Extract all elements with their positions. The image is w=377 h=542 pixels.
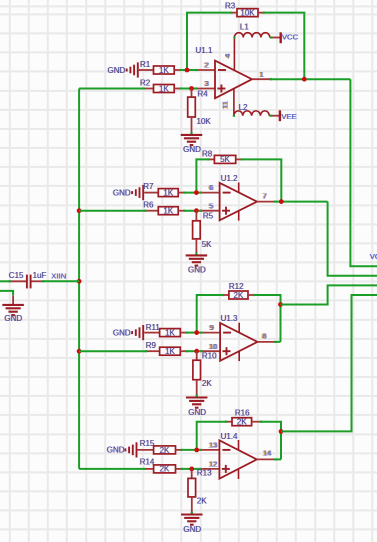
node R4 junction: [189, 86, 194, 91]
wire pin 3 stub: [195, 87, 215, 89]
svg-text:3: 3: [205, 79, 209, 88]
pin 12 label: [208, 460, 217, 469]
label 1K value of R6: [163, 207, 173, 216]
resistor R13: [188, 469, 196, 514]
resistor R7: [144, 189, 185, 197]
label R16: [235, 409, 250, 418]
node bus-R6 junction: [77, 208, 82, 213]
svg-text:5K: 5K: [202, 240, 212, 249]
pin 2 label: [204, 61, 209, 70]
label 2K value of R15: [160, 446, 170, 455]
wire bus to R9: [79, 350, 145, 352]
ground GND below R4: [181, 135, 203, 154]
svg-text:R11: R11: [146, 323, 161, 332]
node U1.3 output junction: [278, 302, 283, 307]
ground GND at C15: [2, 295, 24, 323]
wire bus to R2: [79, 88, 143, 90]
svg-text:2: 2: [205, 61, 209, 70]
node U1.1 output junction: [302, 77, 307, 82]
svg-text:8: 8: [263, 332, 267, 341]
wire pin 13 stub: [200, 449, 220, 451]
svg-text:R16: R16: [235, 409, 250, 418]
svg-text:R8: R8: [202, 149, 213, 158]
svg-text:1K: 1K: [165, 329, 175, 338]
node bus-C15 junction: [77, 279, 82, 284]
svg-text:R5: R5: [203, 212, 214, 221]
wire bus to R14: [79, 468, 144, 470]
node U1.4 output junction: [279, 429, 284, 434]
label 5K value of R5: [202, 240, 212, 249]
ground GND at R7 input: [113, 185, 143, 200]
svg-text:GND: GND: [113, 188, 131, 197]
wire R8 right to output node U1.2: [242, 159, 281, 201]
op-amp U1.4: [219, 440, 256, 479]
wire R11 to pin 9: [187, 332, 201, 334]
svg-text:VO: VO: [370, 252, 377, 261]
pin 14 label: [262, 448, 271, 457]
svg-text:5: 5: [210, 201, 214, 210]
ground GND below R10: [186, 398, 208, 417]
svg-text:R2: R2: [140, 78, 151, 87]
wire R16 right to output node U1.4: [262, 422, 282, 460]
svg-text:14: 14: [263, 448, 271, 457]
label 1K value of R2: [159, 84, 169, 93]
svg-text:2K: 2K: [160, 446, 170, 455]
svg-text:1: 1: [260, 70, 264, 79]
wire input bus vertical: [78, 89, 80, 469]
ground GND at R15 input: [107, 442, 137, 457]
node R5 junction: [194, 208, 199, 213]
svg-text:VEE: VEE: [281, 112, 296, 121]
svg-text:11: 11: [221, 101, 230, 109]
svg-text:13: 13: [209, 441, 217, 450]
node inverting input junction U1.3: [194, 330, 199, 335]
svg-text:U1.1: U1.1: [196, 46, 213, 55]
label R3: [225, 1, 236, 10]
label R9: [146, 341, 157, 350]
svg-text:XIIN: XIIN: [51, 271, 66, 280]
op-amp U1.3: [220, 323, 257, 361]
pin 1 output stub: [252, 78, 272, 80]
label R11: [146, 323, 161, 332]
label R7: [143, 182, 154, 191]
wire bus to R6: [79, 210, 145, 212]
wire R15 to pin 13: [182, 449, 200, 451]
svg-text:R9: R9: [146, 341, 157, 350]
wire pin 6 stub: [200, 192, 220, 194]
power VEE: [280, 110, 297, 121]
resistor R8: [207, 155, 243, 163]
label R1: [140, 60, 151, 69]
pin 3 label: [204, 79, 209, 88]
pin 8 output stub: [258, 341, 277, 343]
wire output 7 to right edge: [328, 202, 377, 276]
label C15: [9, 271, 24, 280]
svg-text:R10: R10: [202, 352, 217, 361]
ground GND below R13: [181, 515, 203, 535]
svg-text:GND: GND: [4, 314, 22, 323]
node bus-R9 junction: [77, 349, 82, 354]
svg-text:R15: R15: [140, 439, 155, 448]
svg-text:U1.2: U1.2: [221, 174, 238, 183]
label VO net: [370, 252, 377, 261]
resistor R4: [188, 89, 196, 135]
svg-text:2K: 2K: [234, 291, 244, 300]
label 1uF value: [33, 271, 47, 280]
resistor R14: [143, 465, 183, 473]
pin 13 label: [208, 441, 217, 450]
svg-text:2K: 2K: [202, 379, 212, 388]
label 2K value of R10: [202, 379, 212, 388]
label 1K value of R7: [163, 189, 173, 198]
svg-text:R14: R14: [140, 457, 155, 466]
label U1.1: [196, 46, 213, 55]
resistor R10: [193, 351, 201, 396]
label R13: [197, 469, 212, 478]
pin 5 label: [208, 201, 213, 210]
wire R2 to pin 3: [181, 88, 196, 90]
resistor R3: [230, 9, 265, 17]
node inverting input junction U1.4: [194, 448, 199, 453]
svg-text:10K: 10K: [240, 8, 255, 17]
svg-text:1K: 1K: [165, 347, 175, 356]
label U1.3: [221, 314, 238, 323]
pin 6 label: [208, 183, 213, 192]
svg-text:GND: GND: [113, 328, 131, 337]
resistor R11: [144, 329, 188, 337]
node inverting input junction U1.1: [185, 68, 190, 73]
svg-text:5K: 5K: [220, 155, 230, 164]
wire R7 to pin 6: [185, 192, 201, 194]
svg-text:2K: 2K: [237, 418, 247, 427]
wire pin 10 stub: [200, 350, 220, 352]
label U1.2: [221, 174, 238, 183]
label XIIN net: [51, 271, 66, 280]
node inverting input junction U1.2: [194, 190, 199, 195]
svg-text:R6: R6: [143, 201, 154, 210]
svg-text:U1.4: U1.4: [221, 432, 238, 441]
wire R16 left to inverting node U1.4: [197, 422, 226, 450]
wire pin 2 stub: [195, 69, 215, 71]
op-amp U1.1: [215, 61, 252, 99]
wire R3 right to output node: [265, 13, 305, 80]
wire R1 to pin 2: [181, 69, 196, 71]
resistor R6: [144, 207, 185, 215]
label R15: [140, 439, 155, 448]
svg-text:R13: R13: [197, 469, 212, 478]
label R4: [198, 89, 209, 98]
svg-text:10: 10: [209, 342, 217, 351]
wire output 14 to right edge: [281, 295, 377, 431]
label R8: [202, 149, 213, 158]
op-amp U1.2: [220, 183, 257, 221]
pin 1 label: [259, 70, 264, 79]
svg-text:1K: 1K: [159, 84, 169, 93]
node R10 junction: [194, 349, 199, 354]
resistor R9: [145, 347, 188, 355]
label R10: [202, 352, 217, 361]
svg-text:1K: 1K: [163, 207, 173, 216]
svg-text:GND: GND: [183, 525, 201, 534]
wire R9 to pin 10: [187, 350, 201, 352]
wire left GND branch: [0, 291, 13, 295]
label R5: [203, 212, 214, 221]
ground GND at R1 input: [108, 62, 138, 77]
svg-text:7: 7: [263, 191, 267, 200]
label 1K value of R9: [165, 347, 175, 356]
pin 7 label: [262, 191, 267, 200]
wire R12 left to inverting node U1.3: [197, 295, 223, 333]
wire R14 to pin 12: [182, 468, 200, 470]
pin 10 label: [208, 342, 217, 351]
wire pin 12 stub: [200, 468, 220, 470]
wire R6 to pin 5: [185, 210, 201, 212]
label R6: [143, 201, 154, 210]
svg-text:9: 9: [210, 323, 214, 332]
wire U1.2 output: [276, 201, 328, 203]
pin 4 label: [223, 53, 232, 58]
svg-text:GND: GND: [107, 446, 125, 455]
pin 14 output stub: [257, 458, 276, 460]
resistor R2: [143, 85, 182, 93]
label L1: [240, 22, 249, 31]
svg-text:R4: R4: [198, 89, 209, 98]
wire U1.3 output: [276, 341, 281, 343]
svg-text:L2: L2: [239, 103, 248, 112]
label 1K value of R11: [165, 329, 175, 338]
resistor R15: [138, 446, 183, 454]
svg-text:L1: L1: [240, 22, 249, 31]
wire R8 left to inverting node U1.2: [196, 159, 208, 192]
pin 9 label: [209, 323, 214, 332]
wire U1.4 output: [275, 458, 281, 460]
svg-text:12: 12: [209, 460, 217, 469]
power VCC: [281, 32, 299, 43]
wire C15 to bus: [44, 280, 79, 282]
svg-text:6: 6: [210, 183, 214, 192]
svg-text:2K: 2K: [197, 496, 207, 505]
resistor R5: [193, 211, 201, 255]
label R12: [229, 282, 244, 291]
svg-text:2K: 2K: [160, 465, 170, 474]
wire R3 left to inverting node: [187, 13, 231, 70]
svg-text:VCC: VCC: [282, 32, 299, 41]
label R14: [140, 457, 155, 466]
svg-text:GND: GND: [183, 145, 201, 154]
wire pin 5 stub: [200, 210, 220, 212]
svg-text:GND: GND: [188, 408, 206, 417]
svg-text:R3: R3: [225, 1, 236, 10]
svg-text:1uF: 1uF: [33, 271, 47, 280]
pin 11 power stub: [233, 88, 235, 116]
pin 8 label: [262, 332, 267, 341]
pin 7 output stub: [257, 201, 276, 203]
label 5K value of R8: [220, 155, 230, 164]
wire pin 9 stub: [200, 332, 220, 334]
svg-text:GND: GND: [188, 266, 206, 275]
label R2: [140, 78, 151, 87]
label 2K value of R12: [234, 291, 244, 300]
node R13 junction: [189, 467, 194, 472]
svg-text:U1.3: U1.3: [221, 314, 238, 323]
wire U1.1 output: [271, 78, 350, 80]
svg-text:C15: C15: [9, 271, 24, 280]
label 10K value of R4: [197, 117, 212, 126]
label 1K value of R1: [159, 66, 169, 75]
ground GND below R5: [186, 255, 208, 274]
svg-text:R1: R1: [140, 60, 151, 69]
pin 11 label: [221, 101, 230, 110]
svg-text:1K: 1K: [163, 189, 173, 198]
pin 4 power stub: [233, 38, 235, 71]
label 2K value of R13: [197, 496, 207, 505]
wire output 8 to right edge: [281, 285, 377, 304]
resistor R1: [139, 66, 182, 74]
resistor R16: [225, 418, 262, 426]
label 2K value of R14: [160, 465, 170, 474]
capacitor C15: [9, 275, 45, 289]
svg-text:4: 4: [223, 53, 232, 57]
inductor L1: [233, 33, 279, 39]
wire R12 right to output node U1.3: [255, 295, 281, 342]
label U1.4: [221, 432, 238, 441]
ground GND at R11 input: [113, 325, 143, 340]
svg-text:R7: R7: [143, 182, 154, 191]
svg-text:GND: GND: [108, 66, 126, 75]
resistor R12: [222, 291, 255, 299]
label 2K value of R16: [237, 418, 247, 427]
wire output 1 to right edge: [350, 79, 377, 266]
inductor L2: [233, 111, 280, 117]
label L2: [239, 103, 248, 112]
label 10K value of R3: [240, 8, 255, 17]
svg-text:10K: 10K: [197, 117, 212, 126]
node U1.2 output junction: [279, 199, 284, 204]
wire XIIN input to C15: [0, 280, 9, 282]
svg-text:1K: 1K: [159, 66, 169, 75]
